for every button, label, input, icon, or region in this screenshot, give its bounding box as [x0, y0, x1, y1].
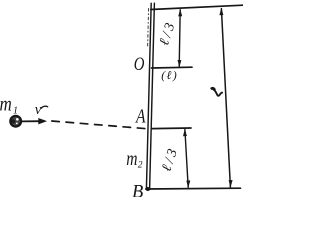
svg-text:m: m: [126, 147, 137, 169]
svg-text:B: B: [132, 183, 143, 197]
svg-text:1: 1: [13, 106, 18, 117]
svg-text:A: A: [135, 105, 146, 127]
svg-text:m: m: [0, 93, 12, 116]
svg-text:(ℓ): (ℓ): [161, 68, 178, 82]
svg-text:O: O: [134, 54, 145, 75]
svg-text:v: v: [35, 102, 42, 118]
svg-text:2: 2: [138, 161, 143, 171]
